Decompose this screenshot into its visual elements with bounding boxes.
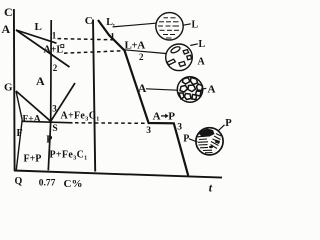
svg-text:3: 3 xyxy=(177,123,182,133)
liquid dashes inside circle 1 xyxy=(158,18,179,38)
svg-text:C: C xyxy=(4,5,13,19)
ferrite right boundary xyxy=(16,120,22,170)
svg-text:A: A xyxy=(36,74,45,88)
svg-text:2: 2 xyxy=(53,63,58,73)
small artifact square after A+L xyxy=(61,45,64,48)
svg-text:1: 1 xyxy=(52,31,57,41)
small dark patch in circle 4 xyxy=(209,146,213,148)
svg-text:P: P xyxy=(168,111,175,123)
svg-text:G: G xyxy=(4,82,13,94)
svg-text:P: P xyxy=(46,134,52,145)
0.77 composition line xyxy=(48,20,51,170)
bottom axis (shared, slight skew) xyxy=(14,171,222,178)
second dark patch in circle 4 xyxy=(215,140,220,145)
svg-text:P: P xyxy=(183,133,189,144)
Acm line S-E xyxy=(51,83,75,121)
svg-text:3: 3 xyxy=(52,104,57,114)
svg-text:2: 2 xyxy=(139,52,144,62)
GS line xyxy=(16,91,51,121)
svg-text:L: L xyxy=(199,39,206,50)
leader circle3 to A label xyxy=(201,88,206,89)
svg-text:1: 1 xyxy=(110,32,115,42)
tie line 1 (dashed) xyxy=(58,39,114,40)
microstructure circle 2 (L + A crystals) xyxy=(166,44,193,71)
microstructure circle 3 (austenite grains) xyxy=(177,77,202,102)
svg-text:A: A xyxy=(208,84,216,96)
left temperature axis xyxy=(13,9,16,171)
svg-text:C: C xyxy=(85,15,93,27)
austenite blobs inside circle 2 xyxy=(167,46,192,67)
leader curve to circle 3 xyxy=(146,89,177,90)
svg-text:A: A xyxy=(153,111,161,123)
svg-text:L,: L, xyxy=(106,17,115,28)
tie line 3 eutectoid (dashed) xyxy=(75,122,146,125)
svg-text:A: A xyxy=(198,57,206,68)
svg-text:A: A xyxy=(2,22,11,36)
svg-text:A+Fe3C1: A+Fe3C1 xyxy=(61,111,100,123)
svg-text:0.77: 0.77 xyxy=(39,179,56,189)
pearlite lamellae inside circle 4 xyxy=(198,134,222,153)
GP line xyxy=(16,91,22,120)
leader curve to circle 2 xyxy=(124,50,166,54)
leader circle4 to P label xyxy=(218,125,225,131)
svg-text:Q: Q xyxy=(15,176,23,187)
tie line 2 (dashed) xyxy=(64,51,123,53)
svg-text:P: P xyxy=(225,118,232,129)
svg-text:F+P: F+P xyxy=(24,154,42,165)
leader circle1 to L label xyxy=(183,24,191,25)
microstructure circle 4 (pearlite) xyxy=(196,128,223,155)
dark pearlite colony blob in circle 4 xyxy=(199,129,215,138)
svg-text:L: L xyxy=(35,21,42,33)
svg-text:3: 3 xyxy=(146,126,151,136)
right diagram temperature axis xyxy=(93,20,95,172)
svg-text:L: L xyxy=(192,20,199,31)
eutectoid line solid part xyxy=(22,121,72,123)
svg-text:A: A xyxy=(138,83,147,95)
liquidus A-1 xyxy=(16,30,57,43)
svg-text:C%: C% xyxy=(64,178,83,190)
svg-text:P+Fe3C1: P+Fe3C1 xyxy=(50,150,88,162)
cooling curve xyxy=(98,20,188,176)
leader circle2 to L label xyxy=(190,44,198,46)
austenite grain boundaries inside circle 3 xyxy=(179,78,203,100)
leader curve to circle 1 xyxy=(113,23,156,27)
svg-text:F+A: F+A xyxy=(23,115,41,125)
microstructure circle 1 (liquid) xyxy=(156,13,183,40)
solidus A-E xyxy=(16,30,70,67)
leader curve to circle 4 xyxy=(189,139,198,142)
svg-text:F: F xyxy=(17,128,23,139)
svg-text:S: S xyxy=(52,124,57,134)
